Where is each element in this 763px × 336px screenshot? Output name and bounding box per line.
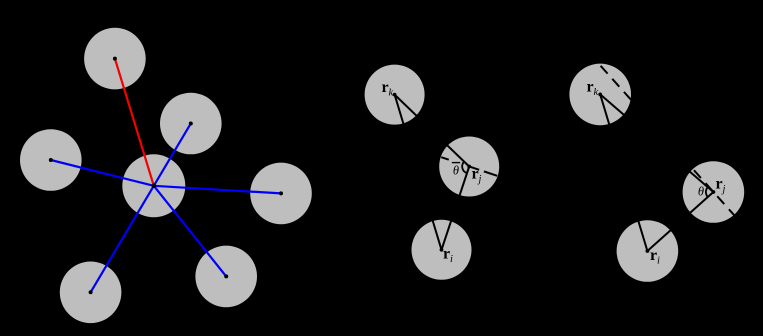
dot rk (middle): [393, 93, 397, 97]
svg-text:θ: θ: [698, 185, 704, 199]
dot upper-right: [189, 122, 193, 126]
particle bottom-right: [195, 246, 257, 308]
dot left: [49, 158, 53, 162]
svg-text:k: k: [389, 88, 394, 99]
dot central: [152, 184, 157, 189]
blue bond central-bottom-left: [91, 186, 154, 292]
dot ri (right): [646, 249, 650, 253]
particle rj (middle): [439, 137, 499, 197]
particle top: [84, 28, 146, 90]
dashed line through rj perpendicular to rj-ri (middle): [441, 157, 497, 176]
particle ri (right): [617, 220, 679, 282]
bond rj-ri (middle): [442, 167, 470, 250]
particle left: [20, 129, 82, 191]
particle upper-right: [160, 93, 222, 155]
svg-text:i: i: [657, 256, 660, 267]
bond rj-ri (right): [647, 192, 713, 251]
blue bond central-bottom-right: [154, 186, 226, 277]
dot rk (right): [598, 93, 602, 97]
dot bottom-right: [224, 274, 228, 278]
long dashed line through rj perpendicular to rj-ri, crossing rk circle (right): [601, 66, 735, 215]
dot ri (middle): [440, 248, 444, 252]
particle rk (middle): [365, 65, 425, 125]
particle ri (middle): [412, 220, 472, 280]
bond rk-rj (right): [600, 94, 713, 192]
particle bottom-left: [60, 262, 122, 324]
blue bond central-upper-right: [154, 124, 191, 186]
angle arc theta-bar at rj (middle): [462, 162, 467, 174]
dot rj (middle): [467, 165, 471, 169]
dot bottom-left: [89, 290, 93, 294]
particle central: [122, 154, 185, 217]
dot rj (right): [712, 190, 716, 194]
particle rk (right): [569, 64, 631, 126]
bond rk-rj (middle): [395, 95, 470, 167]
particle right: [250, 163, 312, 225]
blue bond central-left: [51, 160, 154, 186]
dot right: [279, 191, 283, 195]
angle arc theta at rj (right): [706, 187, 708, 197]
svg-text:i: i: [450, 254, 453, 265]
svg-text:k: k: [594, 87, 599, 98]
red bond central-top: [115, 59, 154, 186]
particle rj (right): [683, 161, 745, 223]
bond rk-ri (middle): [395, 95, 442, 250]
svg-text:θ: θ: [453, 164, 459, 178]
dot top: [113, 57, 117, 61]
blue bond central-right: [154, 186, 281, 194]
bond rk-ri (right): [600, 94, 647, 251]
overbar of theta (middle): [452, 162, 460, 164]
